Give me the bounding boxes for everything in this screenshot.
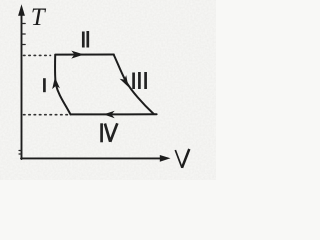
T axis tick marks [19,24,25,155]
T axis [18,4,25,159]
process III arrowhead [120,75,129,87]
process IV line (bottom, going left) [71,113,157,115]
label III [134,72,146,89]
label I [43,78,46,92]
process II line (top, going right) [55,54,114,56]
V axis label [175,149,189,168]
dotted line at upper temperature [24,54,51,56]
V axis [21,155,171,162]
dotted line at lower temperature [24,114,70,116]
label II [83,31,88,48]
svg-text:T: T [31,4,47,31]
process I curve (left, going up) [55,55,70,114]
process III curve (right, going down) [114,55,154,114]
process IV arrowhead [104,111,115,119]
label IV [102,123,118,142]
process II arrowhead [71,51,84,59]
process I arrowhead [52,77,60,89]
